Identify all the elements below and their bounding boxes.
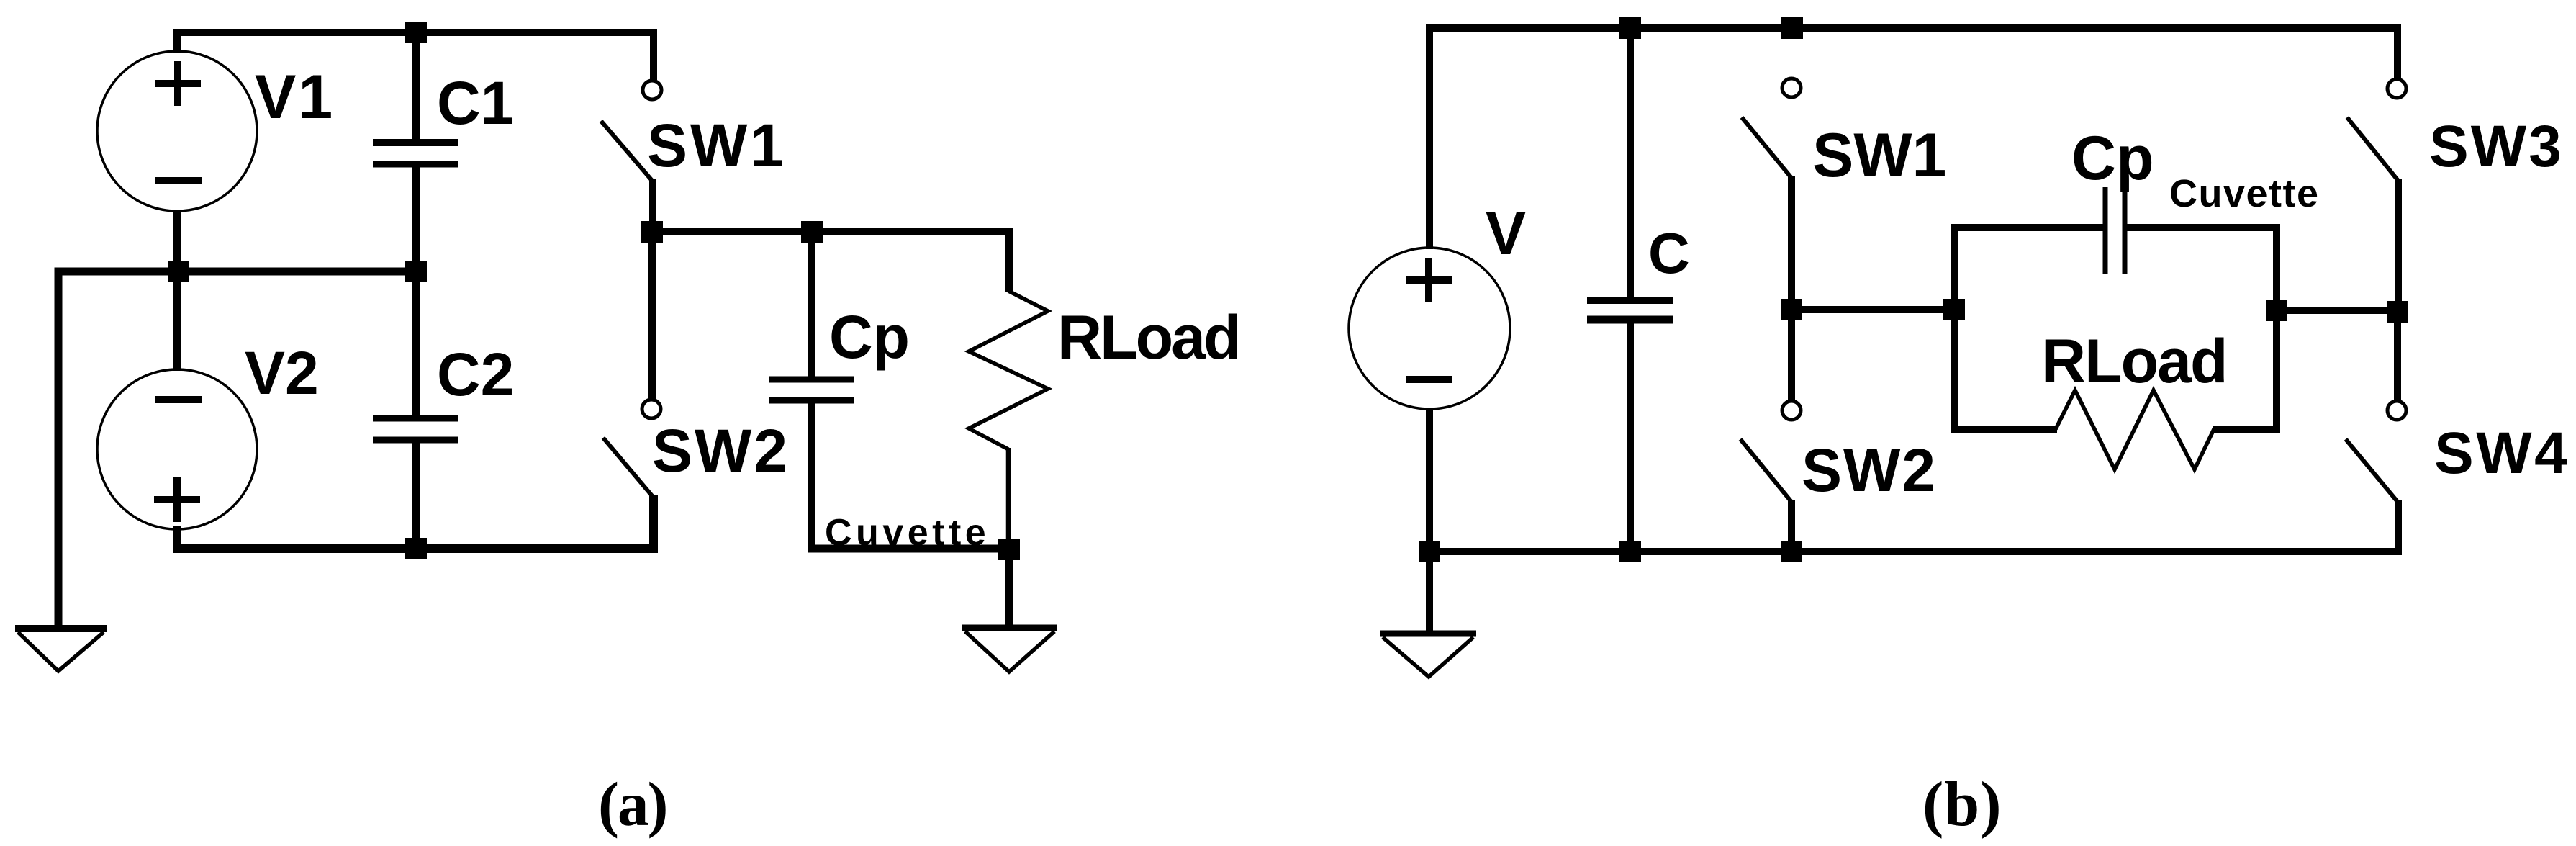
svg-text:C1: C1 — [437, 69, 514, 137]
node (a) bottom C column — [405, 538, 427, 559]
cuvette box right edge (b) — [2273, 228, 2280, 429]
node (a) SW column mid-right — [641, 221, 663, 243]
svg-text:(a): (a) — [598, 769, 666, 839]
switch SW3 (b) — [2347, 79, 2406, 312]
node (b) mid SW3 column — [2387, 301, 2408, 323]
svg-text:Cuvette: Cuvette — [825, 512, 990, 554]
switch SW1 (b) — [1742, 78, 1801, 311]
svg-text:Cuvette: Cuvette — [2169, 172, 2320, 215]
wire V1 bottom to mid net — [173, 211, 181, 274]
cuvette box bottom edge left segment (b) — [1951, 426, 2057, 433]
wire V bottom (b) — [1426, 408, 1433, 552]
svg-text:SW2: SW2 — [1802, 436, 1937, 504]
node (b) top C column — [1619, 17, 1641, 39]
wire cuvette bottom (a) — [808, 545, 1009, 553]
switch SW1 (a) — [601, 81, 661, 233]
ground left (a) — [15, 629, 107, 671]
wire top net (a) — [177, 32, 654, 80]
svg-text:(b): (b) — [1922, 770, 2002, 840]
voltage source V (b) — [1349, 248, 1510, 409]
cuvette box top edge right segment (b) — [2125, 224, 2280, 231]
capacitor Cp (a) — [769, 232, 854, 549]
switch SW2 (a) — [603, 400, 661, 549]
node (a) top C1 — [405, 22, 427, 43]
voltage source V2 — [97, 369, 257, 529]
node (b) mid SW1 column — [1781, 299, 1802, 320]
node (a) mid V column — [168, 261, 189, 282]
capacitor C1 — [373, 32, 458, 271]
wire bottom net (a) — [177, 495, 654, 549]
node (b) top SW1 column — [1781, 17, 1803, 39]
svg-text:SW2: SW2 — [652, 417, 790, 485]
wire SW column (a) — [648, 232, 656, 401]
resistor RLoad (b) — [2056, 390, 2214, 469]
svg-text:SW1: SW1 — [1812, 121, 1946, 190]
svg-text:C2: C2 — [437, 341, 514, 408]
switch SW2 (b) — [1740, 310, 1801, 552]
node (a) mid C column — [405, 261, 427, 282]
wire ground stub (b) — [1426, 552, 1433, 632]
cuvette box top edge left segment (b) — [1951, 224, 2106, 231]
wire ground drop (a) — [1005, 549, 1013, 629]
cuvette box left edge (b) — [1951, 228, 1958, 429]
node (b) box right — [2266, 300, 2287, 321]
wire mid-right net (a) — [652, 232, 1009, 292]
ground (b) — [1380, 634, 1476, 677]
voltage source V1 — [97, 51, 257, 211]
wire top net (b) — [1429, 28, 2398, 249]
node (b) bottom SW2 column — [1781, 541, 1802, 562]
capacitor C (b) — [1587, 28, 1673, 552]
node (b) bottom C column — [1619, 541, 1641, 562]
ground right (a) — [962, 628, 1057, 672]
wire mid-right net (b) — [2277, 307, 2398, 314]
node (a) Cp top — [801, 221, 823, 243]
node (a) cuvette bottom right — [998, 539, 1020, 560]
svg-text:V1: V1 — [255, 63, 335, 132]
cuvette box bottom edge right segment (b) — [2213, 426, 2280, 433]
svg-text:V: V — [1486, 199, 1526, 267]
wire V2 top stub — [173, 271, 181, 371]
capacitor C2 — [373, 271, 458, 549]
resistor RLoad (a) — [969, 291, 1048, 449]
wire bottom net (b) — [1429, 548, 2402, 555]
svg-text:SW4: SW4 — [2434, 420, 2570, 486]
wire mid-left net (b) — [1791, 306, 1954, 313]
node (b) box left — [1943, 299, 1965, 320]
wire mid net (a) with left drop — [58, 271, 416, 629]
svg-text:SW3: SW3 — [2429, 114, 2564, 179]
switch SW4 (b) — [2346, 310, 2406, 555]
svg-text:V2: V2 — [245, 339, 319, 407]
node (b) bottom V column — [1419, 541, 1440, 562]
svg-text:SW1: SW1 — [647, 112, 787, 179]
svg-text:RLoad: RLoad — [2041, 327, 2227, 396]
svg-text:Cp: Cp — [829, 303, 910, 371]
svg-text:C: C — [1648, 221, 1690, 285]
svg-text:Cp: Cp — [2071, 124, 2154, 193]
capacitor Cp (b) — [2105, 187, 2125, 274]
svg-text:RLoad: RLoad — [1057, 303, 1239, 372]
